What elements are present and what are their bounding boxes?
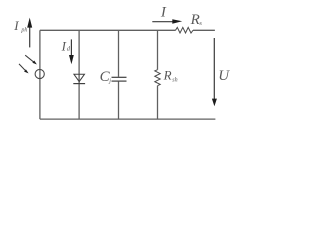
diode D1 triangle [74,74,85,81]
wire bottom bus [40,118,216,120]
svg-text:sh: sh [172,77,177,83]
diode current Id arrow [69,39,74,64]
svg-text:R: R [190,12,200,28]
capacitor Cj plate bottom [112,80,127,82]
wire diode branch [78,30,80,119]
svg-text:I: I [61,38,67,53]
current source U1 circle [35,69,44,78]
svg-text:R: R [163,68,172,83]
diode D1 cathode bar [73,83,85,85]
wire capacitor branch upper [118,30,120,77]
svg-text:j: j [108,79,111,85]
output current I arrow [152,19,182,24]
wire Rsh branch lower [157,86,159,119]
capacitor Cj plate top [112,76,127,78]
svg-text:I: I [160,4,167,20]
photocurrent Iph arrow [27,18,32,48]
wire Rsh branch upper [157,30,159,69]
wire left branch [39,30,41,119]
svg-text:U: U [218,68,230,84]
wire capacitor branch lower [118,82,120,120]
svg-text:ph: ph [20,27,27,33]
light arrow lower [19,64,29,74]
output voltage U arrow [212,38,217,106]
resistor Rs zigzag [176,27,194,33]
wire top right segment after Rs [193,29,215,31]
svg-text:I: I [13,18,19,33]
resistor Rsh zigzag [155,70,160,86]
light arrow upper [25,55,37,64]
wire top bus [40,29,176,31]
